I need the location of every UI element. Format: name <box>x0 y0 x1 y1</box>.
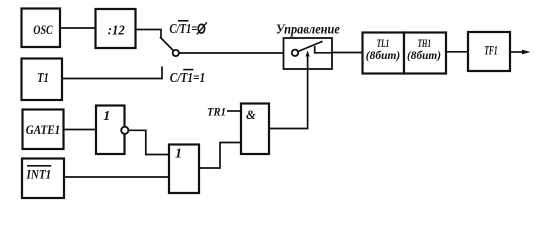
svg-text:GATE1: GATE1 <box>26 122 60 137</box>
svg-text:OSC: OSC <box>33 22 53 37</box>
wire T1 to switch bottom contact <box>62 67 162 79</box>
control switch arm <box>298 41 323 51</box>
svg-text:C/T1=1: C/T1=1 <box>170 70 205 85</box>
block TH1 (8 bit) <box>404 33 446 74</box>
control switch right contact <box>315 46 332 53</box>
svg-text:TH1: TH1 <box>418 38 431 50</box>
svg-text:&: & <box>246 108 256 122</box>
wire inverter to OR gate <box>129 130 170 154</box>
block OSC <box>22 9 61 48</box>
block :12 (divide-by-12 prescaler) <box>96 9 136 48</box>
svg-text::12: :12 <box>108 23 125 38</box>
wire control to TL1 <box>332 52 363 54</box>
wire OSC to :12 <box>60 27 96 29</box>
switch SW arm <box>160 37 173 51</box>
block T1 <box>22 59 63 101</box>
inverter NOT gate (1) <box>96 106 125 155</box>
label C/T1=0 <box>169 21 207 36</box>
block INT1 <box>22 159 64 199</box>
svg-text:T1: T1 <box>37 70 49 85</box>
svg-text:C/T1=: C/T1= <box>169 21 197 36</box>
wire TH1 to TF1 <box>446 51 468 53</box>
control gate arrow (from AND gate) <box>306 51 310 70</box>
svg-text:(8бит): (8бит) <box>366 50 401 62</box>
block TF1 <box>468 32 510 71</box>
block GATE1 <box>23 110 64 150</box>
svg-text:(8бит): (8бит) <box>407 50 441 62</box>
wire OR gate to AND gate <box>199 143 241 169</box>
label C/T1=1 <box>170 70 205 85</box>
wire INT1 to OR gate <box>64 176 169 178</box>
svg-text:TL1: TL1 <box>377 38 390 50</box>
control block box <box>284 38 333 69</box>
inverter output bubble <box>121 127 128 134</box>
svg-text:TR1: TR1 <box>207 104 226 118</box>
control switch circle <box>292 50 298 56</box>
block TL1 (8 bit) <box>363 33 405 74</box>
wire TR1 to AND gate <box>227 110 241 112</box>
svg-text:1: 1 <box>103 109 110 124</box>
output arrow (interrupt request) <box>510 50 531 55</box>
wire :12 to switch top contact <box>136 30 162 38</box>
wire AND gate to control block <box>269 69 308 129</box>
svg-text:1: 1 <box>175 147 182 162</box>
OR gate (1) <box>169 145 199 194</box>
switch SW pivot circle <box>173 50 179 56</box>
svg-text:TF1: TF1 <box>484 43 497 57</box>
svg-text:INT1: INT1 <box>26 168 52 182</box>
wire switch to control block <box>179 52 284 54</box>
AND gate (&) <box>241 104 269 155</box>
svg-text:Управление: Управление <box>276 22 340 37</box>
wire GATE1 to inverter <box>64 129 96 131</box>
